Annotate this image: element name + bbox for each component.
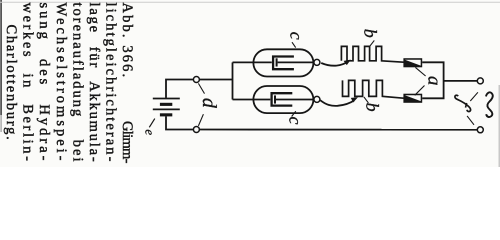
svg-text:Abb. 366.: Abb. 366.: [119, 3, 135, 79]
svg-text:werkes in Berlin-: werkes in Berlin-: [20, 2, 36, 163]
wire bus to tube V1 cathode: [233, 61, 272, 63]
label d: [198, 83, 220, 126]
battery long plate 1: [153, 98, 180, 100]
label c (V1): [286, 32, 306, 48]
wire bus vertical: [232, 62, 234, 99]
choke L2 (slanted black winding box): [403, 94, 422, 103]
svg-text:Charlottenburg.: Charlottenburg.: [3, 25, 19, 142]
scan page edge right: [498, 85, 500, 167]
V1 anode tick: [276, 58, 278, 66]
svg-text:b: b: [362, 103, 382, 112]
svg-text:e: e: [142, 129, 157, 135]
wire battery bottom to node d2: [166, 116, 193, 129]
V2 cathode (C-shape electrode): [272, 93, 293, 105]
battery short thick plate 1: [160, 103, 172, 106]
scan page edge top: [0, 1, 500, 3]
choke L1 (slanted black winding box): [403, 58, 422, 67]
resistor R1 (meander): [341, 46, 403, 62]
svg-text:b: b: [361, 29, 381, 38]
AC source symbol ~ (rotated): [486, 92, 493, 117]
wire bottom rail d2 to AC terminal f2: [199, 129, 477, 131]
scan page edge left: [0, 0, 2, 115]
caption rotated 90deg: Abb. 366. Glimmlichtgleichrichteranlage ...: [3, 2, 135, 164]
label e: [142, 119, 157, 136]
wire battery top to node d1: [166, 80, 193, 98]
svg-text:d: d: [198, 98, 220, 109]
slider tap arrow V2 to R2: [320, 97, 358, 106]
glow rectifier tube V2: [253, 86, 314, 113]
AC terminal f1: [477, 78, 483, 84]
V2 output terminal circle: [314, 96, 320, 102]
label b (R1): [361, 29, 381, 46]
svg-text:c: c: [286, 32, 306, 40]
V1 output terminal circle: [314, 59, 320, 65]
svg-text:torenaufladung bei: torenaufladung bei: [69, 2, 85, 163]
svg-text:a: a: [424, 76, 445, 86]
glow rectifier tube V1: [253, 49, 314, 76]
svg-text:sung des Hydra-: sung des Hydra-: [36, 3, 52, 164]
battery short thick plate 2: [160, 113, 172, 116]
wire node d1 to bus: [199, 79, 232, 81]
wire chokes to AC terminal (right connector): [422, 62, 477, 98]
node d2 (circle): [193, 127, 199, 133]
svg-text:lage für Akkumula-: lage für Akkumula-: [86, 3, 102, 164]
wire bus to tube V2 cathode: [233, 99, 271, 101]
label a: [415, 67, 445, 95]
svg-text:lichtgleichrichteran-: lichtgleichrichteran-: [103, 3, 119, 164]
label b (R2): [362, 97, 382, 112]
V2 anode lead: [276, 99, 314, 101]
V1 anode lead: [278, 61, 314, 63]
battery long plate 2: [153, 108, 180, 110]
label c (V2): [286, 111, 306, 124]
battery e: [153, 99, 180, 117]
node d1 (circle): [193, 77, 199, 83]
svg-text:Wechselstromspei-: Wechselstromspei-: [53, 3, 69, 164]
svg-text:Glimm-: Glimm-: [119, 121, 135, 165]
slider tap arrow V1 to R1: [321, 60, 351, 66]
label f: [455, 92, 478, 125]
V1 cathode (C-shape electrode): [273, 57, 294, 70]
resistor R2 (meander): [343, 80, 404, 98]
AC terminal f2: [477, 127, 483, 133]
V2 anode tick: [274, 95, 276, 103]
svg-text:c: c: [286, 117, 306, 125]
